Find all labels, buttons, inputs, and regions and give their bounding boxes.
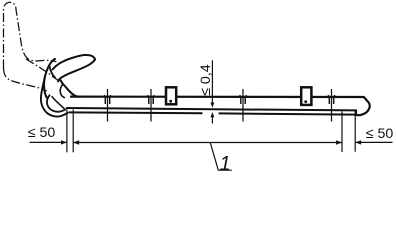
svg-text:1: 1 — [220, 153, 231, 174]
svg-text:≤ 50: ≤ 50 — [28, 125, 56, 141]
svg-text:≤ 0,4: ≤ 0,4 — [198, 64, 214, 96]
svg-text:≤ 50: ≤ 50 — [366, 126, 394, 142]
